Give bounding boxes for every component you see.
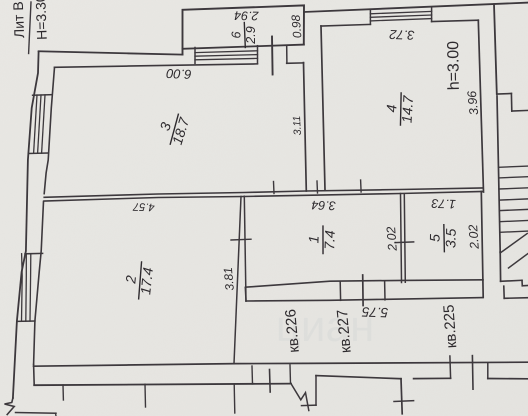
balcony door right jamb [286,46,288,63]
low stub [302,404,317,406]
stair tread 4 [499,199,527,200]
door jamb up B [289,365,292,384]
stair tread 7 [500,231,528,232]
svg-text:2.02: 2.02 [466,224,482,250]
outer wall left face [13,52,39,398]
mid wall band upper line [44,188,483,197]
svg-text:3.5: 3.5 [442,228,458,248]
pilaster step to edge [512,109,528,112]
room4 top inner line right part [432,20,479,21]
corridor bottom line right A [316,376,401,379]
room 2 label [121,260,157,300]
balcony bottom edge / outer wall under balcony [183,45,304,49]
top wall outer line [39,51,183,54]
mid wall band lower line [44,192,483,202]
svg-text:3.96: 3.96 [465,90,481,116]
svg-text:17.4: 17.4 [137,266,156,295]
stair tread 1 [499,166,528,167]
connector P21 to L3 [244,288,247,301]
tick on mid band A [273,182,276,194]
svg-text:2.02: 2.02 [384,226,400,252]
balcony door leaf [271,37,274,75]
outer step bottom right B [521,280,523,286]
rooms 1-5 bottom wall line [246,280,484,287]
stair tread 3 [499,188,527,189]
room4 right wall [478,20,483,192]
window W-A top cap [33,94,53,97]
room1 door leaf [362,275,364,306]
door block right jamb [384,281,386,300]
room 5 label [426,224,458,252]
svg-text:4.57: 4.57 [132,200,155,213]
top wall inner line right of balcony door [287,62,304,64]
underline Lit V [29,2,31,54]
tick on mid band B [316,181,319,193]
window W-D left cap [369,9,371,24]
svg-text:Лит В: Лит В [10,1,27,38]
corridor top line L3 [246,298,483,301]
tick down 3 (under partition) [233,384,236,413]
window W-D line 2 [370,15,431,17]
tick down 1 [62,385,64,400]
door block left jamb [339,281,341,300]
door tick across partition 2-1 [231,238,251,241]
room4 left wall [321,26,325,190]
entry door crossbar [394,400,414,403]
stair tread 2 [499,177,528,178]
room 3 label [153,109,193,148]
window W-C line 2 [195,55,258,57]
stub vertical [315,376,317,406]
svg-text:1.73: 1.73 [431,196,456,211]
svg-text:3.81: 3.81 [221,267,237,291]
door leaf crossing [269,370,272,393]
window W-D bottom line [370,19,431,21]
stair break diagonal 2 [509,254,528,269]
left end vertical of corridor [33,365,36,386]
window W-B pane line 1 [21,254,24,322]
porch side [503,286,505,298]
window W-C left cap [194,48,196,64]
svg-text:5: 5 [427,234,443,242]
stair tread 5 [499,209,527,210]
door leaf kv225 [471,356,474,390]
room3 right wall [304,63,307,191]
pilaster step top [497,93,512,96]
window W-A pane line 2 [38,95,41,153]
window W-A pane line 1 [34,95,37,153]
room 1 label [305,225,338,253]
svg-text:кв.225: кв.225 [440,304,460,349]
bottom stub line [16,412,57,415]
window W-B pane line 3 [29,254,32,322]
outer wall break zigzag [5,398,15,415]
svg-text:3.64: 3.64 [311,198,336,213]
partition 1-5 right face [404,194,405,282]
inner face left wall lower (room 2) [34,202,44,365]
svg-text:6.00: 6.00 [165,66,192,82]
tick down 2 [144,384,147,407]
pilaster step side [510,94,512,112]
svg-text:6: 6 [229,31,243,38]
partition 2-1 left face [234,197,241,364]
svg-text:3.72: 3.72 [388,27,415,43]
stair tread 6 [500,221,528,222]
outer step bottom right A [501,280,522,281]
stairwell left wall lower [499,252,501,281]
top outer line right section [304,3,528,12]
svg-text:0.98: 0.98 [289,14,305,39]
entry door leaf [401,379,402,414]
svg-text:5.75: 5.75 [361,304,388,320]
stair break diagonal 1 [500,234,527,254]
svg-text:4: 4 [383,104,399,113]
window W-C right cap [257,46,259,64]
svg-text:2.9: 2.9 [244,26,258,44]
long mid corridor line [34,362,528,366]
window W-C line 1 [195,51,258,53]
inner face left wall upper (room 3) [44,67,54,193]
svg-text:Н=3.30: Н=3.30 [32,0,50,40]
building outer wall right upper [494,4,497,94]
window W-C line 3 [195,58,258,59]
stairwell left wall [497,96,500,252]
jamb down from mid line [487,363,489,379]
svg-text:2.94: 2.94 [234,8,260,22]
room 6 label (balcony) [229,23,258,48]
jamb up to mid line [449,356,452,378]
corridor bottom line left [34,384,291,386]
window W-D line 1 [370,11,431,13]
room 4 label [382,92,416,126]
window W-B pane line 2 [25,254,28,322]
top wall inner line (room 3 top) [55,64,258,67]
svg-text:14.7: 14.7 [399,94,416,123]
porch bottom to edge [504,297,528,300]
window W-D right cap [431,7,433,22]
partition 1-5 left face [401,194,402,283]
partition 2-1 right face [244,196,246,301]
corridor bottom line right B [414,377,451,379]
door tick across partition 1-5 [395,241,414,244]
window W-A bottom cap [28,152,47,155]
outer step bottom right C [522,285,528,287]
window W-A pane line 3 [42,95,45,153]
balcony outline [183,5,305,54]
svg-text:h=3.00: h=3.00 [445,41,463,91]
svg-text:3.11: 3.11 [291,115,304,135]
room4 top inner line left part [321,24,370,26]
wall break zigzag center [291,384,309,411]
window W-B top cap [25,252,43,254]
corridor bottom line right C [488,378,528,380]
bottom stub tick [55,413,58,416]
window W-B bottom cap [17,320,35,322]
svg-text:7.4: 7.4 [321,230,338,250]
door jamb up A [251,366,254,384]
room5 right wall [481,192,483,298]
tick on mid band C [360,180,363,192]
svg-text:1: 1 [305,235,321,243]
